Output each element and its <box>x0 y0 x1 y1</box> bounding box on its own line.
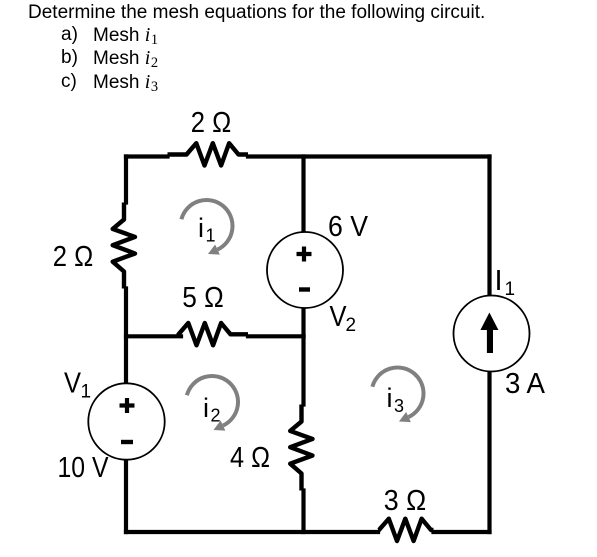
svg-text:2: 2 <box>346 315 357 336</box>
resistor R4 4ohm <box>290 405 312 491</box>
current source I1 circle <box>454 296 530 372</box>
svg-text:1: 1 <box>505 279 516 300</box>
svg-text:V: V <box>64 368 82 400</box>
svg-text:I: I <box>495 265 503 297</box>
resistor R_mid 5ohm <box>179 323 249 345</box>
voltage source V1 10V circle <box>88 383 164 459</box>
svg-text:1: 1 <box>206 226 216 246</box>
resistor R_top 2ohm <box>168 143 249 165</box>
svg-text:3 Ω: 3 Ω <box>384 485 427 517</box>
wire: middle vertical below R4 <box>301 491 305 533</box>
I1 arrow (upward) <box>480 313 498 354</box>
list item b <box>61 47 78 69</box>
svg-text:5 Ω: 5 Ω <box>182 282 224 314</box>
voltage source V2 6V circle <box>267 232 343 308</box>
svg-text:i: i <box>198 213 204 243</box>
wire: left vertical, top segment <box>124 157 128 203</box>
svg-text:V: V <box>330 301 348 333</box>
mesh current arrow i1 <box>181 200 232 255</box>
svg-text:4 Ω: 4 Ω <box>230 442 270 474</box>
svg-text:2 Ω: 2 Ω <box>53 241 94 273</box>
V1 minus sign <box>121 440 133 444</box>
V1 plus sign <box>120 398 135 413</box>
wire: top wire from R_top to top-right corner <box>248 154 490 158</box>
svg-text:10 V: 10 V <box>58 452 110 484</box>
wire: top-left segment of top wire <box>126 154 168 158</box>
mesh current arrow i2 <box>187 376 238 431</box>
svg-text:6 V: 6 V <box>328 211 369 243</box>
svg-text:2 Ω: 2 Ω <box>191 107 232 139</box>
title text <box>28 2 485 24</box>
mesh current arrow i3 <box>372 367 423 422</box>
wire: right vertical wire (through current source) <box>487 157 491 533</box>
wire: left vertical, lower segment (through V1 source) <box>124 289 128 533</box>
svg-text:3 A: 3 A <box>505 368 546 400</box>
list item c <box>61 71 77 93</box>
svg-text:1: 1 <box>81 382 92 403</box>
svg-text:3: 3 <box>394 396 404 416</box>
wire: middle horizontal, left of R5 <box>126 334 181 338</box>
svg-text:i: i <box>203 393 209 423</box>
wire: middle horizontal, right of R5 <box>248 334 304 338</box>
svg-text:i: i <box>387 383 393 413</box>
svg-text:2: 2 <box>211 406 221 426</box>
V2 plus sign <box>297 247 312 262</box>
V2 minus sign <box>299 287 310 291</box>
resistor R_left 2ohm <box>113 203 135 289</box>
list item a <box>61 24 78 46</box>
wire: middle vertical, upper segment (through 6V source) <box>301 157 305 337</box>
wire: bottom wire right of R3 <box>434 530 490 534</box>
wire: bottom wire left of R3 <box>126 530 378 534</box>
wire: middle vertical above R4 <box>301 336 305 404</box>
resistor R_bottom 3ohm <box>378 519 434 541</box>
